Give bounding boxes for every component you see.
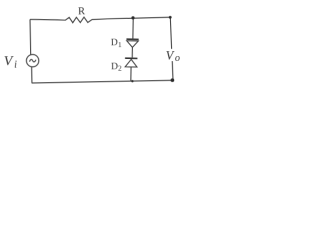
svg-text:2: 2 <box>118 64 122 73</box>
svg-text:i: i <box>14 60 17 71</box>
svg-text:V: V <box>4 54 14 69</box>
svg-text:V: V <box>166 49 175 63</box>
svg-text:o: o <box>175 53 180 64</box>
svg-text:R: R <box>78 6 85 17</box>
svg-text:1: 1 <box>118 40 122 49</box>
